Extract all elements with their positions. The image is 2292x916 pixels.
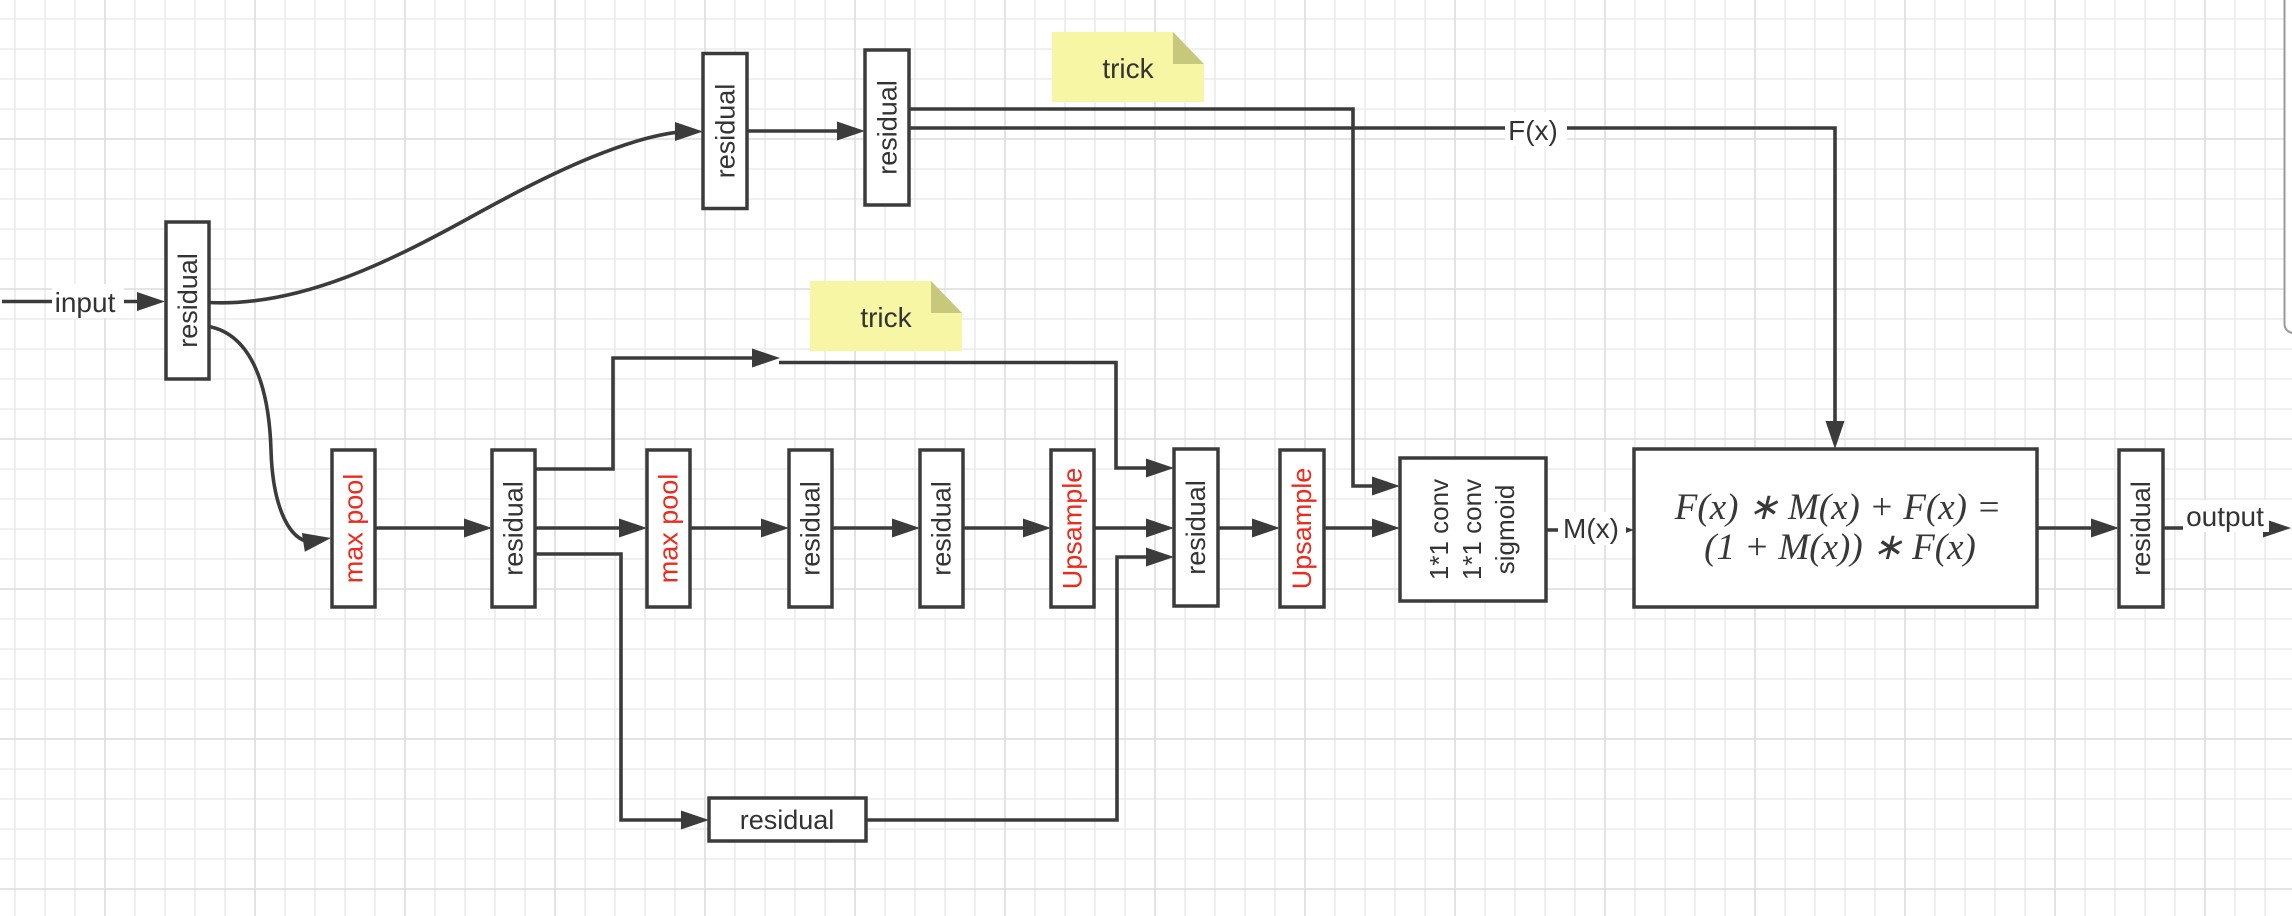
- arrowhead output right edge: [2263, 519, 2291, 538]
- wire formula box to residual7: [2037, 526, 2094, 530]
- residual R2 box: [703, 54, 747, 209]
- arrowhead into residual1: [137, 292, 165, 311]
- arrowhead into max pool2: [619, 519, 647, 538]
- wire 1x1 conv to formula box M(x): [1546, 528, 1618, 532]
- svg-text:max pool: max pool: [654, 474, 684, 584]
- arrowhead into residual4b: [761, 519, 789, 538]
- arrowhead into bottom residual: [681, 811, 709, 830]
- arrowhead into 1x1 conv middle: [1372, 519, 1400, 538]
- wire residual3 lower output F(x) to formula box top: [909, 128, 1835, 423]
- wire residual1 to residual2 curve: [209, 132, 681, 303]
- wire input edge: [2, 300, 142, 304]
- residual R6 box: [1174, 449, 1218, 606]
- svg-text:residual: residual: [927, 481, 957, 576]
- wire residual2 to residual3: [747, 129, 840, 133]
- residual R8 bottom box: [709, 798, 866, 841]
- svg-text:residual: residual: [2126, 481, 2156, 576]
- arrowhead into residual4: [464, 519, 492, 538]
- wire residual1 to max pool curve: [209, 327, 306, 542]
- svg-text:residual: residual: [173, 253, 203, 348]
- Upsample U2 box: [1280, 450, 1324, 607]
- svg-text:input: input: [55, 287, 116, 318]
- arrowhead into Upsample2: [1252, 519, 1280, 538]
- svg-text:residual: residual: [796, 481, 826, 576]
- wire residual4b to residual5: [832, 526, 895, 530]
- wire bottom residual to residual6 bottom input: [866, 557, 1150, 820]
- arrowhead into max pool1 (curved): [302, 529, 333, 552]
- Upsample U1 box: [1051, 450, 1094, 607]
- wire max pool2 to residual4b: [690, 526, 764, 530]
- formula box: [1634, 449, 2037, 607]
- svg-text:trick: trick: [1102, 53, 1154, 84]
- svg-text:1*1 conv: 1*1 conv: [1457, 479, 1487, 580]
- arrowhead mid bypass trick2: [752, 349, 780, 368]
- svg-text:trick: trick: [860, 302, 912, 333]
- residual R3 box: [865, 50, 909, 205]
- residual R5 box: [920, 450, 963, 607]
- svg-text:Upsample: Upsample: [1287, 468, 1317, 590]
- arrowhead into 1x1 conv upper: [1372, 477, 1400, 496]
- wire Upsample1 to residual6: [1094, 526, 1149, 530]
- arrowhead into residual6 bottom: [1146, 548, 1174, 567]
- conv sigmoid box: [1400, 458, 1546, 601]
- conv sigmoid labels: [1424, 479, 1520, 580]
- wire residual5 to Upsample1: [963, 526, 1026, 530]
- svg-text:M(x): M(x): [1563, 513, 1619, 544]
- arrowhead into residual5: [892, 519, 920, 538]
- arrowhead into Upsample1: [1023, 519, 1051, 538]
- residual R1 box: [166, 222, 209, 379]
- svg-text:residual: residual: [1181, 480, 1211, 575]
- svg-text:(1 + M(x)) ∗ F(x): (1 + M(x)) ∗ F(x): [1704, 527, 1976, 568]
- max pool P2 box: [647, 450, 690, 607]
- svg-text:sigmoid: sigmoid: [1490, 485, 1520, 575]
- svg-text:residual: residual: [499, 481, 529, 576]
- wire max pool1 to residual4: [375, 526, 467, 530]
- wire residual4 up bypass to arrow: [535, 358, 753, 469]
- wire residual6 to Upsample2: [1218, 526, 1255, 530]
- svg-text:F(x): F(x): [1508, 115, 1558, 146]
- arrowhead into residual2: [675, 122, 703, 141]
- wire Upsample2 to 1x1 conv box: [1324, 526, 1376, 530]
- note trick 2: [810, 281, 962, 351]
- arrowhead into residual6 middle: [1146, 519, 1174, 538]
- node input label: [52, 284, 124, 318]
- max pool P1 box: [332, 450, 375, 607]
- note trick 1: [1052, 32, 1204, 102]
- node F(x) label: [1505, 112, 1567, 146]
- wire residual4 to max pool2: [535, 526, 622, 530]
- svg-text:Upsample: Upsample: [1058, 468, 1088, 590]
- svg-text:output: output: [2186, 501, 2264, 532]
- arrowhead into formula box left M(x): [1612, 522, 1634, 538]
- wire bypass to residual6 top input: [779, 363, 1150, 469]
- arrowhead into residual3: [837, 122, 865, 141]
- residual R4 box: [492, 450, 535, 607]
- wire residual3 upper output to 1x1 conv box: [909, 109, 1376, 486]
- node output label: [2183, 500, 2269, 532]
- arrowhead into residual6 top: [1146, 459, 1174, 478]
- clipped panel edge right: [2285, 0, 2292, 333]
- residual R4b box: [789, 450, 832, 607]
- svg-text:max pool: max pool: [339, 474, 369, 584]
- arrowhead into formula box top: [1826, 421, 1845, 449]
- svg-text:F(x) ∗ M(x) + F(x) =: F(x) ∗ M(x) + F(x) =: [1674, 487, 2001, 528]
- svg-text:residual: residual: [740, 805, 835, 835]
- svg-text:residual: residual: [873, 80, 903, 175]
- node M(x) label: [1558, 512, 1626, 545]
- svg-text:1*1 conv: 1*1 conv: [1424, 479, 1454, 580]
- wire residual7 to output: [2163, 526, 2266, 530]
- svg-text:residual: residual: [711, 84, 741, 179]
- wire residual4 lower output down to bottom residual: [535, 554, 685, 820]
- residual R7 box: [2119, 450, 2163, 607]
- arrowhead into residual7: [2091, 519, 2119, 538]
